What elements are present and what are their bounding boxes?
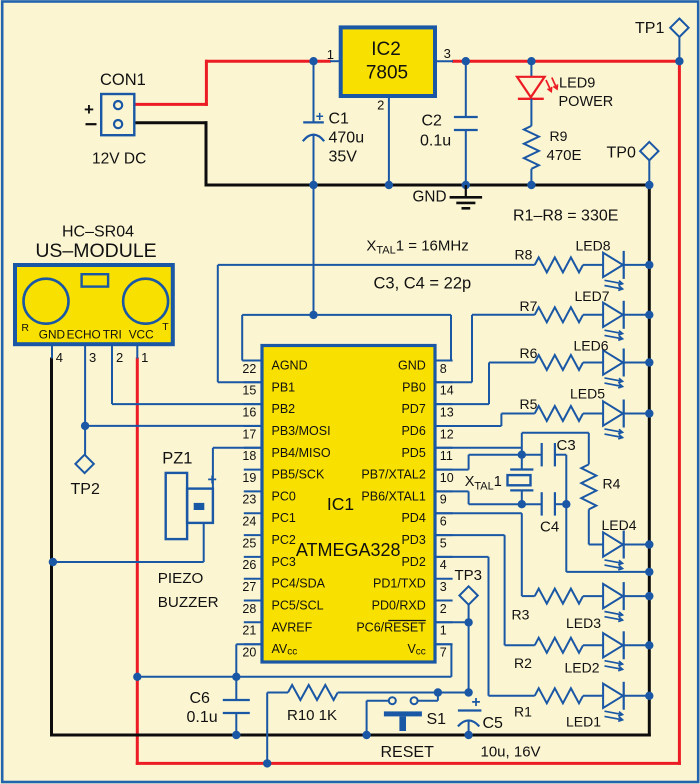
svg-text:R10 1K: R10 1K (287, 707, 337, 724)
svg-text:PB5/SCK: PB5/SCK (272, 468, 325, 482)
svg-text:PB0: PB0 (402, 380, 426, 394)
svg-text:PD0/RXD: PD0/RXD (372, 599, 426, 613)
svg-text:ECHO: ECHO (67, 328, 101, 342)
svg-text:PB6/XTAL1: PB6/XTAL1 (361, 489, 425, 503)
svg-text:S1: S1 (427, 711, 447, 728)
svg-text:LED5: LED5 (570, 386, 605, 402)
svg-text:R7: R7 (520, 298, 538, 314)
svg-text:+: + (84, 100, 94, 119)
svg-text:3: 3 (444, 46, 451, 61)
svg-text:LED2: LED2 (565, 660, 600, 676)
svg-text:12: 12 (440, 427, 454, 441)
svg-text:R2: R2 (514, 655, 532, 671)
svg-text:R: R (21, 322, 29, 334)
svg-text:6: 6 (440, 515, 447, 529)
svg-text:20: 20 (242, 646, 256, 660)
svg-text:3: 3 (440, 580, 447, 594)
svg-text:+: + (208, 472, 217, 489)
svg-text:PB7/XTAL2: PB7/XTAL2 (361, 468, 425, 482)
svg-text:GND: GND (398, 359, 426, 373)
svg-text:2: 2 (377, 98, 384, 113)
svg-text:PB3/MOSI: PB3/MOSI (272, 424, 331, 438)
svg-text:LED9: LED9 (559, 76, 595, 92)
svg-text:US–MODULE: US–MODULE (35, 240, 156, 262)
svg-text:R3: R3 (512, 607, 530, 623)
svg-text:PB1: PB1 (272, 380, 296, 394)
svg-text:C5: C5 (483, 715, 504, 732)
svg-text:13: 13 (440, 405, 454, 419)
svg-text:28: 28 (242, 602, 256, 616)
svg-text:BUZZER: BUZZER (158, 594, 219, 611)
svg-text:PC0: PC0 (272, 489, 296, 503)
svg-text:LED1: LED1 (566, 714, 601, 730)
svg-text:12V DC: 12V DC (92, 151, 146, 168)
svg-text:R5: R5 (520, 396, 538, 412)
svg-text:7805: 7805 (366, 62, 408, 83)
svg-text:T: T (162, 321, 169, 333)
svg-text:35V: 35V (329, 149, 358, 166)
svg-text:16: 16 (242, 405, 256, 419)
svg-text:3: 3 (89, 350, 96, 365)
svg-text:0.1u: 0.1u (187, 709, 218, 726)
svg-text:TP0: TP0 (607, 144, 636, 161)
svg-text:R8: R8 (515, 247, 533, 263)
svg-text:14: 14 (440, 384, 454, 398)
svg-text:8: 8 (440, 362, 447, 376)
svg-text:R9: R9 (550, 128, 568, 144)
svg-text:23: 23 (242, 493, 256, 507)
svg-text:RESET: RESET (381, 744, 435, 761)
svg-text:POWER: POWER (559, 94, 614, 110)
svg-text:AGND: AGND (272, 359, 308, 373)
svg-text:C2: C2 (422, 113, 443, 130)
svg-text:GND: GND (413, 189, 447, 206)
svg-text:PD2: PD2 (401, 555, 425, 569)
svg-text:VCC: VCC (129, 328, 154, 342)
svg-text:2: 2 (440, 602, 447, 616)
svg-text:26: 26 (242, 558, 256, 572)
svg-text:470E: 470E (547, 147, 582, 164)
svg-text:1: 1 (440, 624, 447, 638)
svg-text:IC1: IC1 (327, 494, 354, 514)
svg-text:PD6: PD6 (401, 424, 425, 438)
svg-text:0.1u: 0.1u (420, 133, 451, 150)
svg-text:C6: C6 (190, 690, 211, 707)
svg-text:C3, C4 = 22p: C3, C4 = 22p (374, 275, 472, 293)
svg-text:25: 25 (242, 536, 256, 550)
svg-text:LED7: LED7 (575, 288, 610, 304)
svg-text:LED6: LED6 (574, 338, 609, 354)
svg-text:1: 1 (141, 350, 148, 365)
svg-text:11: 11 (440, 449, 453, 463)
svg-text:R1–R8 = 330E: R1–R8 = 330E (513, 208, 618, 225)
svg-text:PC2: PC2 (272, 533, 296, 547)
svg-text:PD3: PD3 (401, 533, 425, 547)
svg-text:AVREF: AVREF (272, 620, 313, 634)
svg-text:PD4: PD4 (401, 511, 425, 525)
svg-text:R6: R6 (520, 345, 538, 361)
svg-text:C1: C1 (329, 111, 350, 128)
svg-text:PD1/TXD: PD1/TXD (373, 577, 426, 591)
svg-text:PC3: PC3 (272, 555, 296, 569)
svg-text:+: + (316, 109, 324, 124)
svg-text:19: 19 (242, 471, 256, 485)
svg-text:PB4/MISO: PB4/MISO (272, 446, 331, 460)
svg-text:LED3: LED3 (566, 615, 601, 631)
svg-text:LED8: LED8 (576, 238, 611, 254)
svg-text:15: 15 (242, 384, 256, 398)
svg-text:5: 5 (440, 536, 447, 550)
svg-text:7: 7 (440, 646, 447, 660)
svg-text:PZ1: PZ1 (162, 450, 192, 468)
svg-text:9: 9 (440, 493, 447, 507)
svg-text:R4: R4 (603, 476, 621, 492)
svg-text:HC–SR04: HC–SR04 (62, 223, 134, 240)
svg-text:18: 18 (242, 449, 256, 463)
svg-text:TP3: TP3 (455, 567, 483, 584)
svg-text:PC1: PC1 (272, 511, 296, 525)
svg-text:2: 2 (116, 350, 123, 365)
svg-text:TP2: TP2 (71, 481, 100, 498)
svg-text:PC4/SDA: PC4/SDA (272, 577, 326, 591)
svg-text:4: 4 (440, 558, 447, 572)
svg-text:22: 22 (242, 362, 256, 376)
svg-text:4: 4 (56, 350, 63, 365)
svg-text:CON1: CON1 (100, 71, 146, 89)
svg-text:17: 17 (242, 427, 256, 441)
svg-text:PD5: PD5 (401, 446, 425, 460)
svg-text:21: 21 (242, 624, 256, 638)
svg-text:R1: R1 (514, 704, 532, 720)
svg-text:10u, 16V: 10u, 16V (481, 744, 541, 761)
svg-text:IC2: IC2 (371, 39, 401, 60)
svg-text:470u: 470u (329, 130, 365, 147)
svg-text:PB2: PB2 (272, 402, 296, 416)
svg-text:PD7: PD7 (401, 402, 425, 416)
svg-text:TP1: TP1 (635, 20, 664, 37)
svg-text:GND: GND (39, 328, 65, 342)
svg-text:PC6/RESET: PC6/RESET (356, 620, 426, 634)
svg-text:C4: C4 (540, 519, 559, 536)
svg-text:TRI: TRI (103, 328, 122, 342)
svg-text:27: 27 (242, 580, 256, 594)
svg-text:LED4: LED4 (602, 517, 637, 533)
svg-text:10: 10 (440, 471, 454, 485)
svg-text:PIEZO: PIEZO (158, 570, 204, 587)
svg-text:24: 24 (242, 515, 256, 529)
svg-text:+: + (472, 694, 481, 711)
svg-text:1: 1 (327, 47, 334, 62)
svg-text:ATMEGA328: ATMEGA328 (296, 540, 401, 560)
svg-text:C3: C3 (557, 437, 576, 454)
svg-text:PC5/SCL: PC5/SCL (272, 599, 324, 613)
